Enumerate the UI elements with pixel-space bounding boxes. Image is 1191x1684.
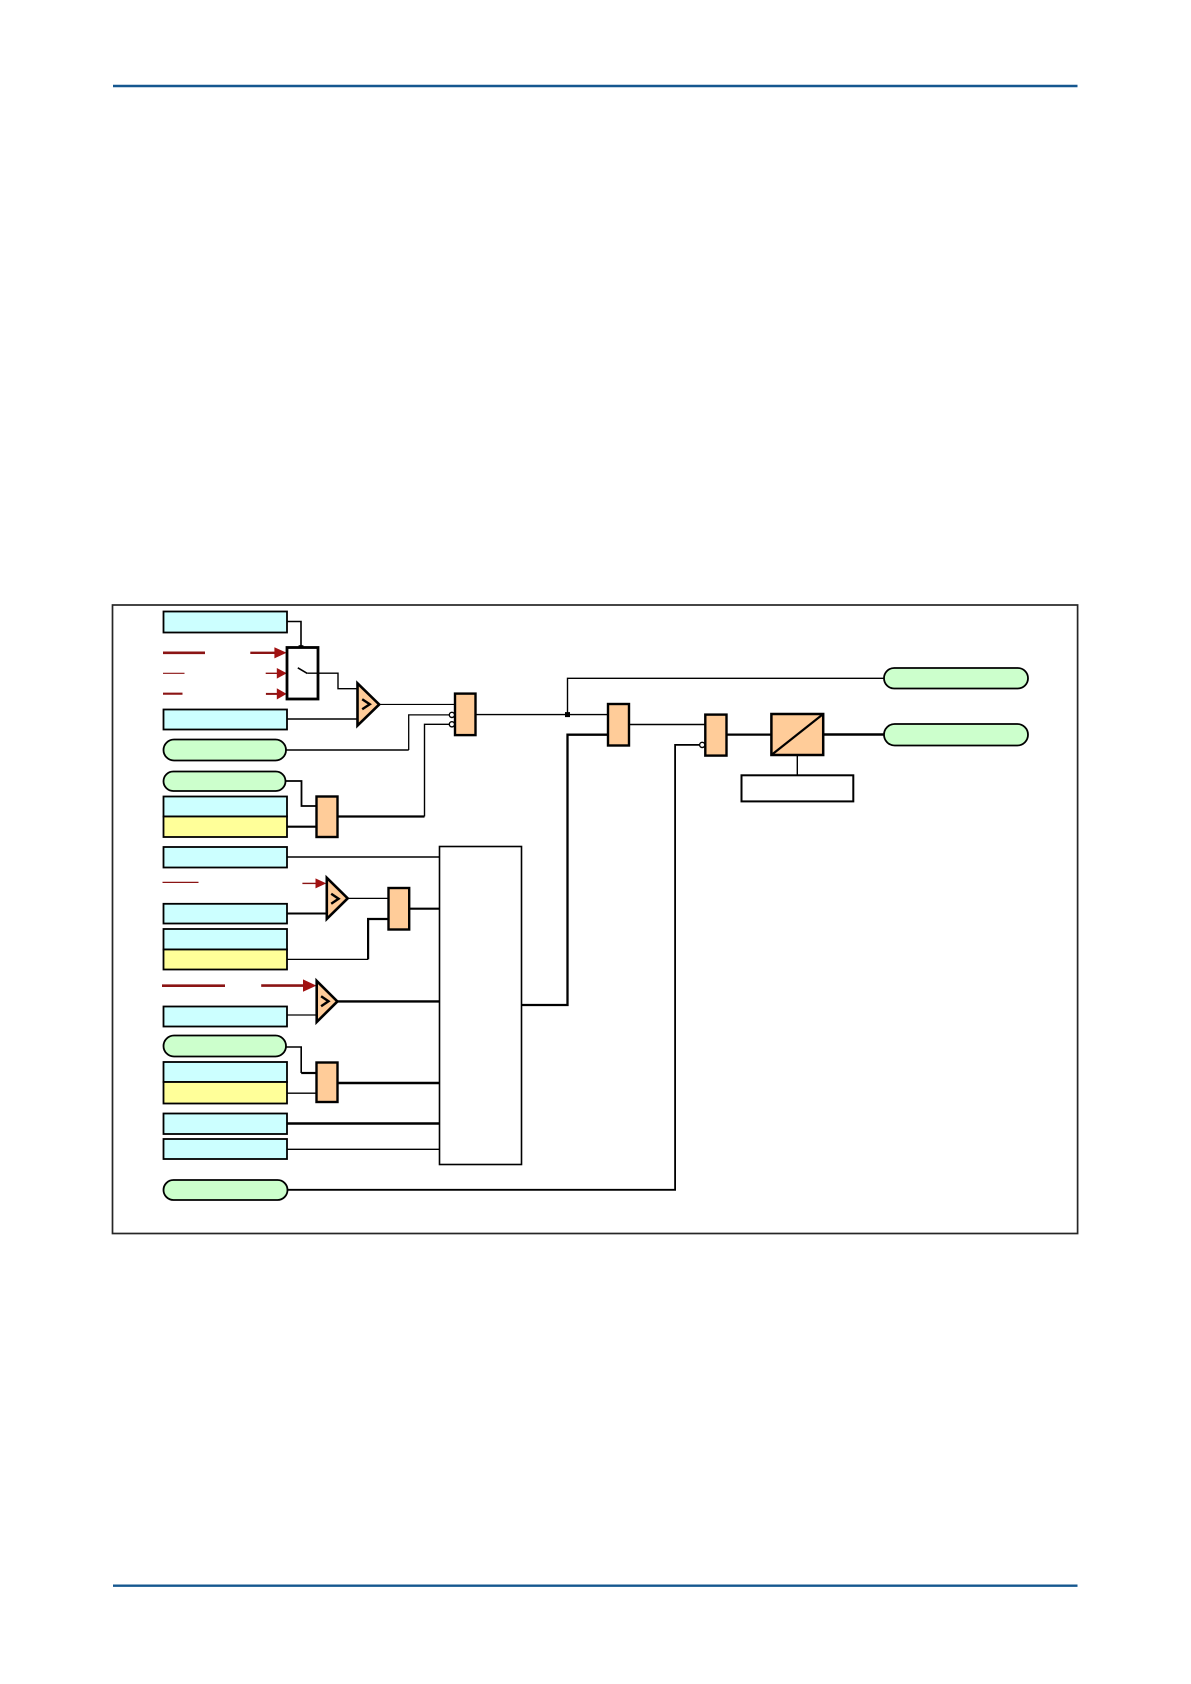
wire U2 out to B3: [348, 897, 389, 899]
mux M1: [455, 694, 476, 736]
wire U1 out to mux: [379, 703, 455, 705]
wire Y2 to B3: [287, 958, 368, 960]
footer rule: [113, 1584, 1078, 1586]
output stadium O1: [884, 668, 1028, 689]
wire S2 to sync2: [286, 781, 317, 806]
register box R3: [164, 797, 288, 817]
wire R10 to big block: [287, 1148, 440, 1150]
register box R6: [164, 929, 288, 950]
register box R4: [164, 847, 288, 868]
xor/polarity block: [771, 714, 823, 755]
polarity label box: [742, 775, 854, 801]
match box Y2: [164, 950, 288, 970]
node junction dot: [565, 712, 570, 717]
register box R8: [164, 1062, 288, 1082]
wire R2 to comparator: [287, 718, 358, 720]
wire B2 out to mux bubble2: [338, 815, 425, 817]
signal stadium S1: [164, 740, 287, 761]
comparator U1: [358, 683, 380, 725]
wire B3 out to big block: [409, 908, 439, 910]
node junction on switch top: [299, 645, 304, 650]
wire R5 to U2: [287, 913, 327, 915]
wire R4 to big block: [287, 856, 440, 858]
wire B4 out to big block: [338, 1082, 440, 1084]
wire big block right to block5 lower input: [522, 735, 609, 1005]
match box Y3: [164, 1082, 288, 1104]
register box R2: [164, 710, 288, 730]
wire xor bottom to label box: [796, 755, 798, 775]
match box Y1: [164, 817, 288, 838]
gate block B6: [705, 715, 726, 756]
wire xor out to stadium out2: [823, 733, 884, 736]
arrow A: [250, 652, 275, 654]
register box R5: [164, 904, 288, 924]
clock line B: [163, 672, 185, 674]
sync block B4: [317, 1063, 338, 1103]
arrow D: [302, 882, 316, 884]
sync block B2: [317, 797, 338, 838]
wire mux out to junction and block5: [476, 714, 609, 716]
bubble input 2: [449, 722, 454, 727]
clock select switch: [287, 648, 318, 700]
wire S1 to mux bubble1: [286, 749, 409, 751]
output stadium O2: [884, 724, 1028, 746]
wire R9 to big block: [287, 1122, 440, 1124]
figure frame: [113, 605, 1078, 1234]
gate block B5: [608, 704, 629, 746]
wire B6 out to xor: [727, 733, 772, 735]
clock line C: [163, 693, 183, 695]
wire Y1 to sync2: [287, 826, 317, 828]
wire switch to comparator: [307, 673, 357, 689]
arrow B: [266, 672, 278, 674]
signal stadium S4: [164, 1180, 288, 1200]
wire S3 to B4: [286, 1047, 301, 1073]
bubble input B6: [700, 742, 705, 747]
wire U3 out to big block: [337, 1000, 439, 1002]
register box R9: [164, 1114, 288, 1135]
wire R7 to U3: [287, 1014, 317, 1016]
arrow E: [261, 984, 304, 987]
comparator U3: [317, 981, 338, 1022]
wire Y3 to B4: [287, 1092, 317, 1094]
wire S4 to block6 bubble: [288, 745, 700, 1190]
register box R1: [164, 612, 288, 633]
comparator U2: [327, 878, 348, 919]
switch lever: [298, 668, 308, 674]
big logic block: [440, 847, 522, 1165]
clock line A: [163, 651, 205, 654]
wire junction up to stadium out1: [568, 678, 885, 714]
clock line D: [163, 881, 199, 883]
arrow C: [266, 693, 278, 695]
bubble input 1: [449, 712, 454, 717]
signal stadium S3: [164, 1036, 287, 1057]
register box R7: [164, 1007, 288, 1027]
wire R1 to switch top: [287, 622, 301, 667]
wire B5 out to B6: [629, 724, 705, 726]
register box R10: [164, 1139, 288, 1159]
sync block B3: [389, 888, 410, 930]
clock line E: [162, 984, 225, 987]
signal stadium S2: [164, 772, 286, 792]
header rule: [113, 85, 1078, 87]
